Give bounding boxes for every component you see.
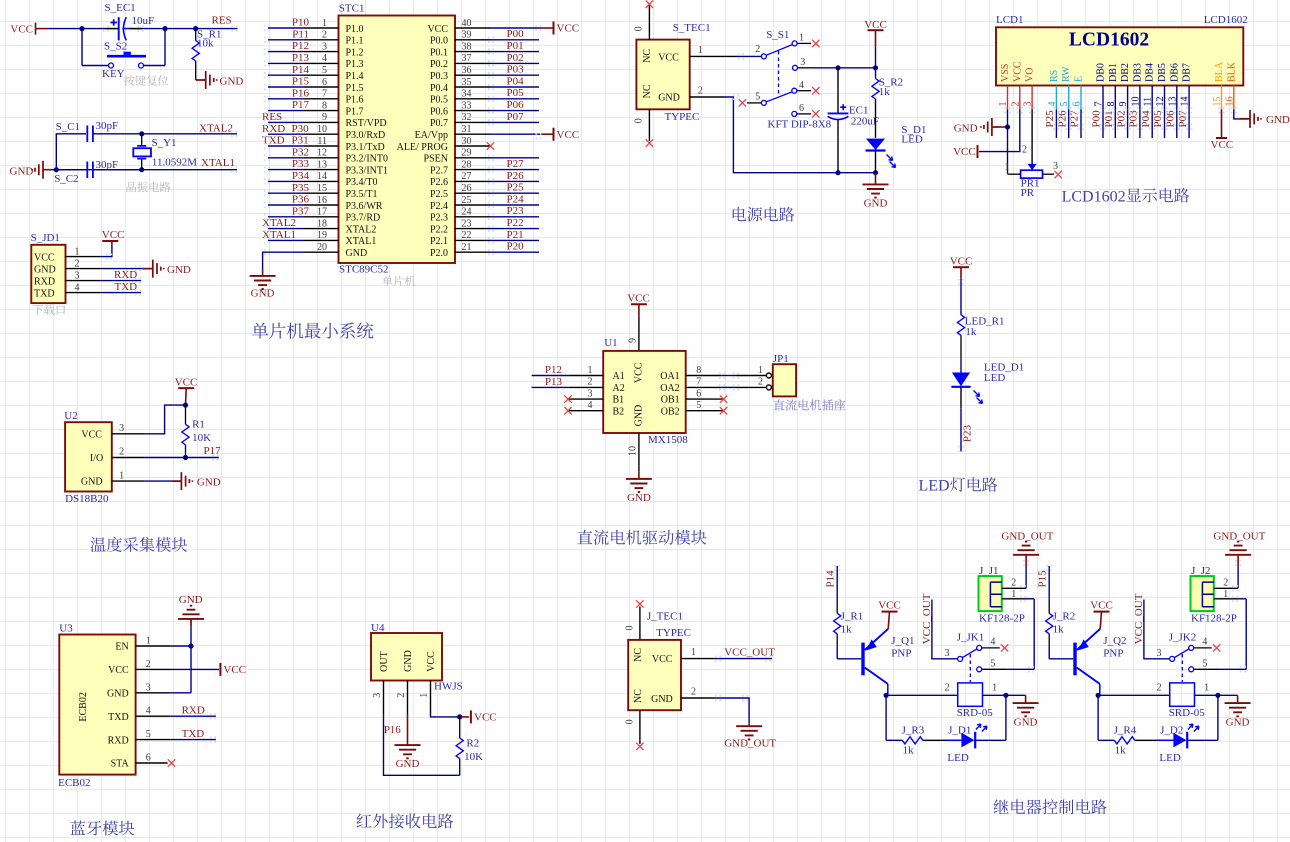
svg-text:8: 8 bbox=[696, 365, 701, 376]
svg-text:14: 14 bbox=[317, 171, 327, 182]
pin 36 of STC1 bbox=[455, 74, 490, 76]
pin 1 of U1 bbox=[568, 375, 603, 377]
pin 27 of STC1 bbox=[455, 180, 490, 182]
svg-text:P3.2/INT0: P3.2/INT0 bbox=[346, 154, 389, 165]
wire LCD pin1 to gnd bbox=[1007, 109, 1009, 127]
wire stub pin 4 LCD bbox=[1055, 109, 1057, 138]
svg-text:VCC: VCC bbox=[652, 654, 673, 665]
svg-text:6: 6 bbox=[322, 77, 327, 88]
svg-text:P23: P23 bbox=[962, 424, 974, 442]
power port VCC at U3 bbox=[219, 663, 221, 676]
no-ERC marker J_JK2 pin4 bbox=[1213, 644, 1220, 651]
svg-text:LCD1: LCD1 bbox=[996, 14, 1024, 26]
node junction R1 bottom bbox=[183, 455, 188, 460]
svg-text:P06: P06 bbox=[507, 99, 525, 111]
svg-text:DB7: DB7 bbox=[1182, 63, 1193, 82]
no-ERC marker top J_TEC1 bbox=[636, 600, 643, 607]
svg-text:P37: P37 bbox=[292, 205, 310, 217]
pin 3 of LCD1 bbox=[1031, 86, 1033, 110]
wire pin4 RXD bbox=[171, 715, 216, 717]
wire pin2 to VCC port bbox=[171, 668, 219, 670]
svg-text:P23: P23 bbox=[507, 205, 525, 217]
pin 23 of STC1 bbox=[455, 228, 490, 230]
lcd LCD1 body bbox=[996, 27, 1243, 85]
svg-text:P05: P05 bbox=[507, 87, 525, 99]
capacitor EC1 bbox=[828, 68, 849, 173]
wire pin1 to switch5 bbox=[1027, 598, 1035, 600]
node junction rail left 2 bbox=[1096, 693, 1101, 698]
svg-text:KFT DIP-8X8: KFT DIP-8X8 bbox=[768, 118, 832, 130]
wire net right row 39 bbox=[490, 39, 540, 41]
svg-text:GND_OUT: GND_OUT bbox=[1001, 530, 1053, 542]
svg-text:P32: P32 bbox=[292, 146, 309, 158]
pin 37 of STC1 bbox=[455, 62, 490, 64]
wire RXD from pin3 bbox=[101, 280, 141, 282]
wire junction to resistor bbox=[875, 68, 877, 79]
node junction B3 bbox=[139, 131, 144, 136]
svg-text:STC1: STC1 bbox=[339, 3, 365, 15]
no-ERC marker S_S1 pin6 bbox=[812, 110, 819, 117]
wire stub pin 9 LCD bbox=[1127, 109, 1129, 138]
svg-text:0: 0 bbox=[634, 26, 645, 31]
pin 1 of S_JD1 bbox=[66, 256, 101, 258]
resistor S_R1 bbox=[192, 29, 199, 80]
svg-text:3: 3 bbox=[119, 423, 124, 434]
wire relay to gnd junction bbox=[983, 694, 1026, 696]
svg-text:6: 6 bbox=[696, 388, 701, 399]
svg-text:4: 4 bbox=[322, 53, 327, 64]
wire pin3 down and to R2 bottom bbox=[384, 714, 460, 776]
wire net left row 18 bbox=[268, 228, 304, 230]
resistor R1 bbox=[185, 405, 187, 424]
no-ERC marker PR1 pin3 bbox=[1055, 171, 1062, 178]
svg-text:P00: P00 bbox=[507, 28, 525, 40]
svg-text:TXD: TXD bbox=[182, 728, 205, 740]
capacitor S_C2 bbox=[56, 162, 141, 179]
wire net left row 14 bbox=[268, 180, 304, 182]
svg-text:2: 2 bbox=[755, 44, 760, 55]
svg-text:P10: P10 bbox=[292, 17, 310, 29]
svg-text:P1.1: P1.1 bbox=[346, 36, 364, 47]
svg-text:4: 4 bbox=[799, 80, 804, 91]
svg-text:ALE/ PROG: ALE/ PROG bbox=[397, 142, 448, 153]
svg-text:20: 20 bbox=[317, 242, 327, 253]
svg-text:P15: P15 bbox=[292, 76, 310, 88]
wire net left row 11 bbox=[268, 145, 304, 147]
svg-text:VCC: VCC bbox=[108, 665, 129, 676]
svg-text:P33: P33 bbox=[292, 158, 310, 170]
wire pin3 to VCC rail bbox=[812, 67, 876, 69]
svg-text:22: 22 bbox=[462, 230, 472, 241]
svg-text:P1.6: P1.6 bbox=[346, 95, 364, 106]
wire stub pin 14 LCD bbox=[1188, 109, 1190, 138]
wire VCC to junction bbox=[875, 47, 877, 68]
transistor J_Q2 PNP bbox=[1075, 629, 1100, 696]
pin 4 of U3 bbox=[136, 715, 171, 717]
power port VCC bbox=[10, 23, 48, 36]
svg-text:9: 9 bbox=[628, 338, 639, 343]
wire pin1 to switch5 bbox=[1239, 598, 1247, 600]
power port VCC at U4 bbox=[470, 710, 472, 723]
svg-text:VCC: VCC bbox=[658, 53, 679, 64]
wire net right row 29 bbox=[490, 157, 540, 159]
pin 5 stub of J_JK1 bbox=[982, 668, 1007, 670]
pin 1 of U4 bbox=[430, 681, 432, 714]
wire net left row 12 bbox=[268, 157, 304, 159]
power port VCC at pin 31 bbox=[553, 128, 555, 141]
diode LED_D1 bbox=[951, 373, 982, 404]
pin 3 of U1 bbox=[568, 398, 603, 400]
svg-text:P3.1/TxD: P3.1/TxD bbox=[346, 142, 385, 153]
ic U3 body bbox=[59, 635, 135, 775]
wire to VCC port row 40 bbox=[490, 27, 541, 29]
svg-text:11: 11 bbox=[317, 136, 327, 147]
svg-text:23: 23 bbox=[462, 218, 472, 229]
pin 34 of STC1 bbox=[455, 98, 490, 100]
svg-text:13: 13 bbox=[317, 159, 327, 170]
svg-text:RW: RW bbox=[1061, 66, 1072, 82]
svg-text:LED: LED bbox=[947, 752, 968, 764]
text caption lanya bbox=[70, 820, 134, 835]
svg-text:MX1508: MX1508 bbox=[648, 434, 688, 446]
svg-text:GND: GND bbox=[658, 93, 680, 104]
svg-text:VSS: VSS bbox=[1000, 64, 1011, 82]
pin 32 of STC1 bbox=[455, 121, 490, 123]
pin 16 of STC1 bbox=[304, 204, 339, 206]
svg-text:P01: P01 bbox=[507, 40, 524, 52]
wire net left row 16 bbox=[268, 204, 304, 206]
svg-text:XTAL2: XTAL2 bbox=[199, 122, 233, 134]
ic U2 body bbox=[65, 422, 112, 491]
wire net left row 4 bbox=[268, 62, 304, 64]
pin 10 of STC1 bbox=[304, 133, 339, 135]
svg-text:1: 1 bbox=[588, 365, 593, 376]
svg-text:P2.4: P2.4 bbox=[430, 201, 448, 212]
pin 5 of U1 bbox=[686, 410, 723, 412]
svg-text:1: 1 bbox=[758, 365, 763, 376]
svg-text:GND: GND bbox=[107, 689, 129, 700]
pin 4 stub of J_JK1 bbox=[982, 647, 1000, 649]
svg-text:P13: P13 bbox=[292, 52, 310, 64]
svg-text:RXD: RXD bbox=[114, 269, 137, 281]
wire stub pin 8 LCD bbox=[1114, 109, 1116, 138]
pin 1 of U2 bbox=[112, 480, 145, 482]
svg-text:S_S1: S_S1 bbox=[766, 29, 789, 41]
wire net P12 bbox=[532, 375, 569, 377]
pin 7 of STC1 bbox=[304, 98, 339, 100]
svg-text:VCC: VCC bbox=[1090, 599, 1113, 611]
svg-text:1: 1 bbox=[698, 45, 703, 56]
pin 5 of U3 bbox=[136, 739, 171, 741]
svg-text:0: 0 bbox=[634, 118, 645, 123]
svg-text:40: 40 bbox=[462, 18, 472, 29]
svg-text:12: 12 bbox=[317, 148, 327, 159]
no-ERC marker S_S1 pin1 bbox=[812, 40, 819, 47]
switch J_JK2 pole bbox=[1170, 645, 1194, 661]
svg-text:XTAL1: XTAL1 bbox=[346, 236, 377, 247]
pin 21 of STC1 bbox=[455, 251, 490, 253]
svg-text:3: 3 bbox=[372, 693, 383, 698]
svg-text:VCC: VCC bbox=[1211, 139, 1234, 151]
svg-text:P2.7: P2.7 bbox=[430, 165, 448, 176]
svg-text:GND: GND bbox=[10, 165, 34, 177]
svg-text:P31: P31 bbox=[292, 135, 309, 147]
svg-text:4: 4 bbox=[146, 706, 151, 717]
svg-text:2: 2 bbox=[1022, 145, 1027, 156]
pin 17 of STC1 bbox=[304, 216, 339, 218]
wire LCD pin16 to gnd bbox=[1234, 109, 1240, 119]
svg-text:TXD: TXD bbox=[108, 712, 129, 723]
svg-text:11: 11 bbox=[1143, 97, 1154, 107]
pin 14 of LCD1 bbox=[1188, 86, 1190, 110]
svg-text:1: 1 bbox=[1005, 162, 1010, 173]
svg-text:P2.6: P2.6 bbox=[430, 177, 448, 188]
wire pin5 TXD bbox=[171, 739, 216, 741]
svg-text:VCC: VCC bbox=[634, 362, 645, 383]
pin 29 of STC1 bbox=[455, 157, 490, 159]
pin 7 of LCD1 bbox=[1102, 86, 1104, 110]
svg-text:0: 0 bbox=[625, 626, 636, 631]
node junction A1 bbox=[79, 26, 84, 31]
pin 3 stub of S_S1 bbox=[798, 67, 813, 69]
ground GND at LCD pin1 bbox=[981, 118, 1000, 136]
svg-text:VCC_OUT: VCC_OUT bbox=[921, 593, 933, 644]
svg-text:3: 3 bbox=[146, 682, 151, 693]
svg-text:P35: P35 bbox=[292, 182, 310, 194]
pin 0 bottom of S_TEC1 bbox=[648, 109, 650, 141]
svg-text:P34: P34 bbox=[292, 170, 310, 182]
svg-text:RXD: RXD bbox=[182, 704, 205, 716]
wire stub pin 12 LCD bbox=[1164, 109, 1166, 138]
pin 4 of S_JD1 bbox=[66, 292, 101, 294]
svg-text:J_JK1: J_JK1 bbox=[957, 632, 985, 644]
pin 5 of LCD1 bbox=[1068, 86, 1070, 110]
svg-text:1: 1 bbox=[419, 693, 430, 698]
svg-text:LCD1602: LCD1602 bbox=[1069, 30, 1149, 51]
node junction LCD pin1 bbox=[1005, 124, 1010, 129]
no-ERC marker U1 pin5 bbox=[720, 407, 727, 414]
svg-text:S_C2: S_C2 bbox=[54, 173, 78, 185]
text caption wendu bbox=[91, 537, 188, 552]
svg-text:3: 3 bbox=[1023, 102, 1034, 107]
svg-text:1k: 1k bbox=[965, 326, 977, 338]
pin 4 stub of J_JK2 bbox=[1194, 647, 1212, 649]
pin 13 of STC1 bbox=[304, 169, 339, 171]
svg-text:8: 8 bbox=[322, 100, 327, 111]
svg-text:VO: VO bbox=[1025, 68, 1036, 82]
svg-text:32: 32 bbox=[462, 112, 472, 123]
svg-text:J_R3: J_R3 bbox=[902, 725, 925, 737]
pin 25 of STC1 bbox=[455, 204, 490, 206]
svg-text:A2: A2 bbox=[613, 383, 625, 394]
svg-text:P1.4: P1.4 bbox=[346, 71, 364, 82]
svg-text:GND: GND bbox=[81, 477, 103, 488]
svg-text:GND: GND bbox=[220, 75, 244, 87]
svg-text:VCC: VCC bbox=[953, 146, 976, 158]
svg-text:J_R2: J_R2 bbox=[1053, 610, 1076, 622]
svg-text:DS18B20: DS18B20 bbox=[65, 493, 109, 505]
svg-text:NC: NC bbox=[642, 84, 653, 98]
resistor J_R2 bbox=[1048, 602, 1050, 614]
pin 0 top of S_TEC1 bbox=[648, 6, 650, 40]
svg-text:J_TEC1: J_TEC1 bbox=[647, 611, 683, 623]
wire base of J_Q1 bbox=[836, 645, 838, 659]
pin 3 of U4 bbox=[383, 681, 385, 714]
wire LCD pin2 to VCC bbox=[979, 109, 1020, 151]
svg-text:5: 5 bbox=[696, 400, 701, 411]
pin 15 of STC1 bbox=[304, 192, 339, 194]
svg-text:DB6: DB6 bbox=[1169, 63, 1180, 82]
wire VCC from pin1 bbox=[101, 243, 112, 257]
svg-text:XTAL1: XTAL1 bbox=[262, 229, 296, 241]
svg-text:2: 2 bbox=[1157, 682, 1162, 693]
text caption dianji drive bbox=[577, 530, 706, 545]
connector JP1 body bbox=[773, 364, 796, 396]
svg-text:8: 8 bbox=[1106, 102, 1117, 107]
svg-text:5: 5 bbox=[1202, 659, 1207, 670]
pin 2 of JP1 bbox=[766, 385, 771, 390]
svg-text:LED: LED bbox=[1159, 752, 1180, 764]
wire net left row 7 bbox=[268, 98, 304, 100]
svg-text:KEY: KEY bbox=[102, 68, 125, 80]
svg-text:9: 9 bbox=[1118, 102, 1129, 107]
svg-text:VCC: VCC bbox=[34, 252, 55, 263]
ground GND at S_R1 bbox=[196, 71, 217, 89]
svg-text:7: 7 bbox=[1094, 102, 1105, 107]
wire net right row 22 bbox=[490, 239, 540, 241]
svg-text:P1.2: P1.2 bbox=[346, 47, 364, 58]
pin 2 of LCD1 bbox=[1019, 86, 1021, 110]
wire pin7 to JP1 bbox=[721, 386, 736, 388]
svg-text:3: 3 bbox=[588, 388, 593, 399]
pin 4 stub of S_S1 bbox=[797, 90, 811, 92]
pin 30 of STC1 bbox=[455, 145, 491, 147]
svg-text:3: 3 bbox=[1053, 161, 1058, 172]
svg-text:P1.0: P1.0 bbox=[346, 24, 364, 35]
pin 12 of STC1 bbox=[304, 157, 339, 159]
pin 9 of STC1 bbox=[304, 121, 339, 123]
pin 4 of STC1 bbox=[304, 62, 339, 64]
capacitor S_C1 bbox=[87, 126, 141, 143]
pin 11 of STC1 bbox=[304, 145, 339, 147]
svg-text:GND: GND bbox=[197, 476, 221, 488]
svg-text:1: 1 bbox=[146, 636, 151, 647]
svg-text:GND: GND bbox=[1014, 716, 1038, 728]
svg-text:19: 19 bbox=[317, 230, 327, 241]
wire net right row 33 bbox=[490, 110, 540, 112]
connector J_J1 body bbox=[979, 576, 1002, 611]
resistor J_R3 bbox=[902, 737, 923, 744]
text label dianji chazuo bbox=[773, 399, 845, 410]
svg-text:1: 1 bbox=[998, 102, 1009, 107]
wire XTAL1 net bbox=[51, 169, 237, 171]
node junction rail left 1 bbox=[884, 693, 889, 698]
svg-text:J_Q1: J_Q1 bbox=[891, 635, 914, 647]
pin 6 of STC1 bbox=[304, 86, 339, 88]
svg-text:U4: U4 bbox=[371, 622, 385, 634]
wire led branch left bbox=[1097, 695, 1099, 740]
ground GND power circuit bbox=[875, 173, 877, 185]
no-ERC marker J_JK1 pin4 bbox=[1001, 644, 1008, 651]
svg-text:5: 5 bbox=[1059, 102, 1070, 107]
svg-text:P0.1: P0.1 bbox=[430, 47, 448, 58]
svg-text:U3: U3 bbox=[59, 623, 73, 635]
svg-text:15: 15 bbox=[317, 183, 327, 194]
pin 6 stub of S_S1 bbox=[797, 113, 811, 115]
svg-text:JP1: JP1 bbox=[773, 353, 789, 365]
pin 14 of STC1 bbox=[304, 180, 339, 182]
switch J_JK2 contact 5 bbox=[1189, 667, 1194, 672]
mcu STC1 body bbox=[339, 16, 456, 264]
svg-text:S_C1: S_C1 bbox=[56, 121, 80, 133]
wire net left row 6 bbox=[268, 86, 304, 88]
wire net right row 36 bbox=[490, 74, 540, 76]
svg-text:P3.4/T0: P3.4/T0 bbox=[346, 177, 378, 188]
svg-text:13: 13 bbox=[1167, 97, 1178, 107]
svg-text:J_D1: J_D1 bbox=[948, 725, 971, 737]
pin 9 of LCD1 bbox=[1127, 86, 1129, 110]
svg-text:ECB02: ECB02 bbox=[58, 777, 90, 789]
wire net right row 35 bbox=[490, 86, 540, 88]
no-ERC marker bottom J_TEC1 bbox=[636, 743, 643, 750]
node junction B1 bbox=[54, 167, 59, 172]
node junction VCC rail top bbox=[873, 65, 878, 70]
svg-text:PR: PR bbox=[1021, 187, 1035, 199]
svg-text:OA1: OA1 bbox=[660, 371, 679, 382]
switch S_S1 pole A bbox=[761, 41, 797, 59]
pin 1 of J_J2 bbox=[1214, 598, 1239, 600]
svg-text:4: 4 bbox=[75, 282, 80, 293]
pin 8 of STC1 bbox=[304, 110, 339, 112]
wire P14 down bbox=[836, 566, 838, 602]
svg-text:18: 18 bbox=[317, 218, 327, 229]
connector J_J1 pin squares bbox=[990, 582, 1001, 607]
svg-text:15: 15 bbox=[1212, 97, 1223, 107]
pin 22 of STC1 bbox=[455, 239, 490, 241]
svg-text:7: 7 bbox=[696, 377, 701, 388]
wire net left row 13 bbox=[268, 169, 304, 171]
svg-text:PNP: PNP bbox=[891, 648, 911, 660]
svg-text:VCC: VCC bbox=[426, 651, 437, 672]
svg-text:S_EC1: S_EC1 bbox=[105, 2, 136, 14]
svg-text:HWJS: HWJS bbox=[434, 681, 463, 693]
svg-text:VCC: VCC bbox=[627, 293, 650, 305]
svg-text:S_TEC1: S_TEC1 bbox=[673, 22, 711, 34]
svg-text:P30: P30 bbox=[292, 123, 310, 135]
svg-text:2: 2 bbox=[698, 86, 703, 97]
svg-text:GND: GND bbox=[179, 594, 203, 606]
pin 2 of J_J2 bbox=[1214, 587, 1238, 589]
wire net left row 19 bbox=[268, 239, 304, 241]
wire pin2 net P17 bbox=[145, 457, 219, 459]
svg-text:16: 16 bbox=[1224, 97, 1235, 107]
svg-text:1k: 1k bbox=[903, 745, 915, 757]
svg-text:NC: NC bbox=[633, 689, 644, 703]
relay coil SRD-05 1 bbox=[958, 683, 983, 706]
wire rail to relay coil bbox=[886, 694, 958, 696]
wire pin2 to GND_OUT bbox=[1237, 566, 1239, 588]
svg-text:VCC: VCC bbox=[10, 23, 33, 35]
connector J_TEC1 body bbox=[628, 640, 681, 710]
wire pin3 to junction bbox=[171, 692, 191, 694]
svg-text:24: 24 bbox=[462, 207, 472, 218]
wire pin1 to gnd bbox=[145, 480, 172, 482]
wire net right row 23 bbox=[490, 228, 540, 230]
wire net left row 10 bbox=[268, 133, 304, 135]
svg-text:14: 14 bbox=[1180, 97, 1191, 107]
pin 2 of J_TEC1 bbox=[681, 697, 715, 699]
pin 1 of JP1 bbox=[766, 373, 771, 378]
